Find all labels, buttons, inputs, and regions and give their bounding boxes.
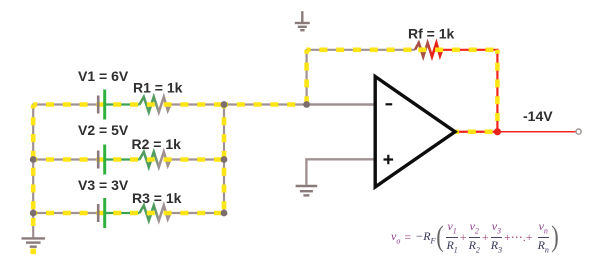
svg-text:R1 = 1k: R1 = 1k	[133, 80, 183, 96]
formula: vo = -RF(v1/R1 + v2/R2 + v3/R3 + ... + vn/Rn)	[391, 221, 560, 253]
wire: yellow current dashes top gray run	[307, 47, 415, 52]
wire: yellow current dashes top red run	[415, 47, 497, 52]
node: output terminal (open circle)	[576, 129, 581, 134]
resistor R1	[140, 97, 171, 112]
ground (left, below sources bus)	[22, 238, 46, 246]
resistor Rf	[415, 43, 442, 57]
node: inverting input summing junction	[303, 101, 310, 108]
wire: yellow current dashes input run	[224, 102, 307, 107]
node: branch2/left bus junction	[30, 156, 37, 163]
wire: feedback top run (red part) and red riser	[442, 50, 497, 132]
wire: branch3 right segment	[171, 212, 225, 214]
wire: green segment V3 to R3	[105, 212, 140, 214]
node: branch2/right bus junction	[221, 156, 228, 163]
op-amp plus sign	[384, 155, 394, 165]
wire: right collector bus	[223, 103, 225, 213]
wire: yellow current dashes output	[455, 129, 497, 134]
svg-text:V2 = 5V: V2 = 5V	[78, 122, 129, 138]
svg-text:R3 = 1k: R3 = 1k	[132, 190, 182, 206]
wire: yellow current dashes red riser	[495, 50, 500, 132]
battery V1	[97, 90, 106, 120]
wire: yellow dash on left ground stub	[31, 218, 36, 226]
wire: yellow current dashes riser	[304, 50, 309, 105]
svg-text:-14V: -14V	[523, 108, 553, 124]
wire: yellow current dashes right bus	[222, 105, 227, 214]
resistor R3	[140, 205, 171, 220]
svg-text:V1 = 6V: V1 = 6V	[78, 68, 129, 84]
battery V3	[97, 198, 106, 228]
wire: minus-input stub from node to op-amp	[307, 103, 376, 105]
node: branch1/right bus junction	[221, 101, 228, 108]
node: branch3/right bus junction	[221, 210, 228, 217]
wire: yellow current dashes branch3	[33, 211, 224, 216]
node: branch3/left bus junction	[30, 210, 37, 217]
resistor R2	[140, 152, 171, 167]
battery V2	[97, 145, 106, 175]
wire: output red wire (op-amp tip to node)	[455, 131, 497, 133]
wire: branch2 left segment	[33, 158, 104, 160]
wire: branch2 right segment	[171, 158, 225, 160]
wire: plus-input stub and its ground drop	[306, 159, 375, 185]
wire: yellow current dashes branch1	[33, 102, 224, 107]
wire: yellow current dashes left bus	[31, 105, 36, 214]
wire: output red wire (node to terminal)	[497, 131, 576, 133]
wire: feedback riser and top run (gray part)	[307, 50, 415, 105]
ground (op-amp non-inverting input)	[296, 186, 318, 195]
op-amp U1	[375, 77, 455, 188]
node: output junction (red)	[494, 128, 501, 135]
svg-text:V3 = 3V: V3 = 3V	[78, 177, 129, 193]
wire: green segment V1 to R1	[105, 103, 140, 105]
ground (floating, above feedback corner)	[295, 11, 310, 30]
wire: yellow current dashes branch2	[33, 157, 224, 162]
wire: left bus with branch1 left + ground stub	[33, 105, 104, 238]
wire: branch1 right through to input node	[171, 103, 307, 105]
svg-text:R2 = 1k: R2 = 1k	[132, 136, 182, 152]
wire: green segment V2 to R2	[105, 158, 140, 160]
op-amp minus sign	[386, 103, 393, 105]
svg-text:Rf = 1k: Rf = 1k	[408, 26, 455, 42]
wire: yellow dash below left ground	[30, 249, 36, 255]
wire: branch3 left segment	[33, 212, 104, 214]
